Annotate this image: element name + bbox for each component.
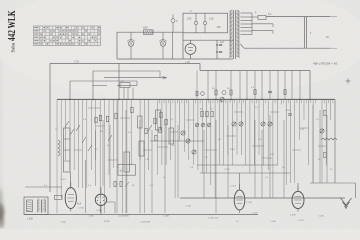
svg-text:C 314: C 314 <box>230 186 237 188</box>
svg-text:125: 125 <box>209 17 214 21</box>
svg-text:C 26: C 26 <box>74 62 80 64</box>
svg-text:L 300: L 300 <box>27 219 33 221</box>
svg-text:NSF: NSF <box>143 27 148 30</box>
svg-text:C 320: C 320 <box>318 216 325 218</box>
svg-text:C 304: C 304 <box>78 208 85 210</box>
svg-text:C 318: C 318 <box>185 206 192 208</box>
svg-text:46h 157/185 + 42: 46h 157/185 + 42 <box>313 62 337 66</box>
svg-text:C 308: C 308 <box>96 210 103 212</box>
svg-text:C 312: C 312 <box>224 169 231 171</box>
svg-text:C 315: C 315 <box>252 213 259 215</box>
svg-text:C 310 311: C 310 311 <box>208 218 219 220</box>
svg-text:C 305/308: C 305/308 <box>140 222 151 224</box>
svg-text:Ca 300/301: Ca 300/301 <box>118 216 130 218</box>
svg-text:C 313: C 313 <box>246 202 253 204</box>
svg-text:1,5 W: 1,5 W <box>290 215 297 217</box>
svg-text:C 309: C 309 <box>163 216 170 218</box>
svg-text:150: 150 <box>217 26 222 29</box>
svg-text:1 M: 1 M <box>145 159 149 161</box>
svg-text:C 306: C 306 <box>88 216 95 218</box>
svg-text:442 WLK: 442 WLK <box>6 10 18 41</box>
svg-text:C 300: C 300 <box>60 222 67 224</box>
svg-text:2M: 2M <box>100 131 103 133</box>
svg-text:220: 220 <box>187 17 192 21</box>
svg-text:AL4: AL4 <box>77 203 82 206</box>
svg-text:C 316: C 316 <box>270 221 277 223</box>
svg-text:5000: 5000 <box>230 149 236 151</box>
svg-text:B 250: B 250 <box>104 221 110 223</box>
svg-text:Saba: Saba <box>12 42 17 52</box>
svg-text:C 301: C 301 <box>60 179 67 181</box>
svg-text:C 317: C 317 <box>298 220 305 222</box>
